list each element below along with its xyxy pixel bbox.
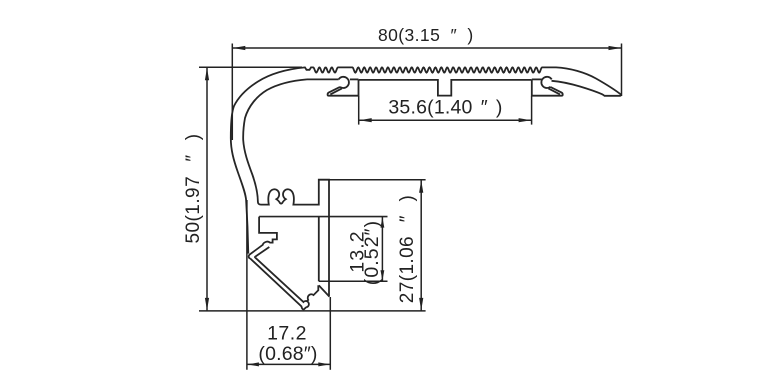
screw boss omega on bar top, right wall top and outer face	[261, 180, 329, 297]
right wall chamfer	[319, 285, 330, 296]
profile top outline with serrated anti-slip surface	[231, 67, 621, 253]
bar bottom and 13.2 top extension	[259, 216, 387, 218]
right hook tail lower edge	[548, 88, 560, 94]
dim 17.2 extension right	[329, 297, 331, 370]
right hook circle	[541, 77, 551, 88]
dim 17.2 extension left	[246, 200, 248, 370]
dim 35.6 extension right	[531, 96, 533, 124]
dim 35.6 extension left	[358, 96, 360, 124]
dim 50 line	[206, 67, 208, 311]
dim 17.2 line	[247, 363, 330, 365]
flange bottom between left hook and boss wall	[350, 78, 359, 80]
45deg wall outer face and rounded bottom tip	[250, 258, 306, 309]
dim 13.2 line	[381, 217, 383, 282]
dim 27 line	[420, 180, 422, 311]
dim 80 extension left	[231, 44, 233, 141]
dim 80 line	[232, 47, 621, 49]
dim 13.2 bottom extension	[319, 280, 388, 282]
dim 27 top extension	[319, 179, 426, 181]
left hook tail lower edge	[330, 88, 342, 94]
dim 50 top extension	[199, 66, 302, 68]
flange bottom between boss wall and right hook	[532, 78, 543, 80]
flange bottom left	[307, 78, 339, 80]
diffuser wing lower face	[255, 247, 269, 258]
flange bottom with center screw rib	[359, 80, 532, 96]
svg-text:50(1.97 ″ ): 50(1.97 ″ )	[183, 133, 204, 243]
45deg wall inner face and ogee lip	[255, 258, 318, 308]
nosing inner curve and left wall inner face	[243, 79, 307, 204]
svg-text:35.6(1.40 ″ ): 35.6(1.40 ″ )	[388, 96, 502, 118]
svg-text:(0.52″): (0.52″)	[361, 220, 383, 286]
dim 35.6 line	[359, 119, 532, 121]
right hook tail and J-slot	[532, 80, 563, 96]
left hook circle	[339, 77, 349, 88]
dim 80 extension right	[621, 44, 623, 97]
shared bottom extension line	[199, 310, 426, 312]
svg-text:17.2: 17.2	[267, 323, 307, 345]
interior steps, bump and diffuser wing upper face	[249, 217, 277, 259]
svg-text:27(1.06 ″ ): 27(1.06 ″ )	[397, 195, 418, 303]
right wall inner face	[318, 217, 320, 282]
svg-text:(0.68″): (0.68″)	[258, 343, 317, 365]
right ramp lower face	[552, 81, 622, 96]
svg-text:80(3.15 ″ ): 80(3.15 ″ )	[378, 25, 474, 45]
left hook tail and J-slot	[328, 80, 359, 96]
